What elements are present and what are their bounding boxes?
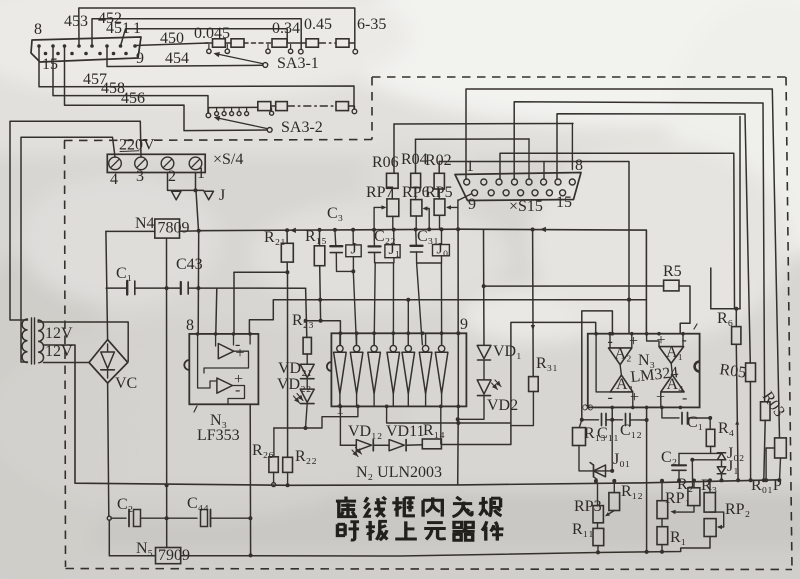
svg-text:15: 15 bbox=[42, 56, 58, 73]
svg-text:R₁: R₁ bbox=[670, 529, 686, 546]
svg-text:1: 1 bbox=[466, 158, 474, 175]
svg-text:R06: R06 bbox=[372, 154, 399, 171]
svg-text:J₁: J₁ bbox=[389, 241, 401, 258]
svg-text:RP₁: RP₁ bbox=[665, 490, 690, 507]
svg-text:9: 9 bbox=[468, 196, 476, 213]
svg-text:6-35: 6-35 bbox=[357, 16, 386, 33]
svg-text:J₀: J₀ bbox=[437, 240, 449, 257]
svg-text:+: + bbox=[630, 389, 639, 406]
svg-text:J₀₁: J₀₁ bbox=[613, 451, 630, 468]
svg-text:R₁₂: R₁₂ bbox=[621, 483, 643, 500]
svg-text:N4: N4 bbox=[135, 215, 155, 232]
svg-text:VC: VC bbox=[115, 375, 137, 392]
svg-text:C₁₂: C₁₂ bbox=[620, 422, 642, 439]
svg-text:4: 4 bbox=[110, 171, 118, 188]
svg-text:×S15: ×S15 bbox=[509, 198, 543, 215]
svg-text:R₁₃: R₁₃ bbox=[584, 425, 606, 442]
svg-text:C₄₄: C₄₄ bbox=[187, 495, 209, 512]
svg-text:R₂₆: R₂₆ bbox=[252, 442, 274, 459]
svg-text:J: J bbox=[351, 241, 357, 258]
svg-text:VD11: VD11 bbox=[386, 423, 425, 440]
svg-text:-: - bbox=[682, 390, 687, 407]
svg-text:12V: 12V bbox=[45, 325, 73, 342]
svg-text:8: 8 bbox=[575, 157, 583, 174]
svg-text:VD₁: VD₁ bbox=[493, 343, 522, 360]
svg-text:2: 2 bbox=[168, 168, 176, 185]
svg-text:C43: C43 bbox=[176, 256, 203, 273]
svg-text:R02: R02 bbox=[425, 152, 452, 169]
svg-text:9: 9 bbox=[460, 316, 468, 333]
svg-text:8: 8 bbox=[186, 317, 194, 334]
svg-text:J: J bbox=[219, 187, 225, 204]
svg-text:SA3-1: SA3-1 bbox=[277, 55, 319, 72]
svg-text:454: 454 bbox=[165, 50, 189, 67]
svg-text:R₁₁: R₁₁ bbox=[572, 521, 594, 538]
svg-text:C₁: C₁ bbox=[116, 265, 132, 282]
svg-text:15: 15 bbox=[556, 194, 572, 211]
svg-text:0.45: 0.45 bbox=[304, 16, 332, 33]
svg-text:×S/4: ×S/4 bbox=[213, 151, 243, 168]
svg-text:R₃: R₃ bbox=[701, 477, 717, 494]
svg-text:R₃₁: R₃₁ bbox=[536, 355, 558, 372]
svg-text:9: 9 bbox=[136, 50, 144, 67]
svg-text:1: 1 bbox=[197, 165, 205, 182]
svg-text:R₂₂: R₂₂ bbox=[295, 448, 317, 465]
svg-text:3: 3 bbox=[136, 168, 144, 185]
svg-text:8: 8 bbox=[34, 21, 42, 38]
svg-text:450: 450 bbox=[160, 30, 184, 47]
svg-text:R04: R04 bbox=[401, 151, 428, 168]
svg-text:0.045: 0.045 bbox=[194, 25, 230, 42]
svg-text:-: - bbox=[235, 382, 240, 399]
svg-text:C₁: C₁ bbox=[687, 414, 703, 431]
svg-text:C₂: C₂ bbox=[117, 496, 133, 513]
svg-text:N₅: N₅ bbox=[136, 540, 153, 557]
svg-text:451: 451 bbox=[106, 20, 130, 37]
svg-text:VD₂₁: VD₂₁ bbox=[278, 360, 312, 377]
svg-text:R₂₁: R₂₁ bbox=[264, 229, 286, 246]
svg-text:453: 453 bbox=[64, 13, 88, 30]
svg-text:R₁₅: R₁₅ bbox=[305, 228, 327, 245]
svg-text:12V: 12V bbox=[45, 343, 73, 360]
svg-text:R₄: R₄ bbox=[718, 420, 735, 437]
svg-text:N₂ ULN2003: N₂ ULN2003 bbox=[356, 464, 442, 481]
svg-text:J₁: J₁ bbox=[727, 458, 739, 475]
svg-text:∞: ∞ bbox=[582, 399, 593, 416]
svg-text:7809: 7809 bbox=[158, 220, 190, 237]
svg-text:RP5: RP5 bbox=[425, 184, 453, 201]
svg-text:R₁₄: R₁₄ bbox=[423, 422, 445, 439]
svg-text:VD₂₂: VD₂₂ bbox=[277, 376, 311, 393]
svg-text:C₃: C₃ bbox=[327, 205, 343, 222]
svg-text:VD₁₂: VD₁₂ bbox=[348, 423, 382, 440]
svg-text:C₂: C₂ bbox=[661, 449, 677, 466]
svg-text:VD2: VD2 bbox=[487, 397, 518, 414]
svg-text:SA3-2: SA3-2 bbox=[281, 119, 323, 136]
svg-text:R₂₃: R₂₃ bbox=[292, 312, 314, 329]
svg-text:0.34: 0.34 bbox=[272, 20, 300, 37]
svg-text:+: + bbox=[629, 333, 638, 350]
svg-text:R₆: R₆ bbox=[717, 310, 733, 327]
svg-text:LF353: LF353 bbox=[197, 427, 240, 444]
svg-text:R5: R5 bbox=[663, 263, 682, 280]
svg-text:456: 456 bbox=[121, 90, 145, 107]
svg-text:RP7: RP7 bbox=[366, 184, 394, 201]
svg-text:+: + bbox=[236, 345, 245, 362]
svg-text:RP₂: RP₂ bbox=[725, 501, 750, 518]
